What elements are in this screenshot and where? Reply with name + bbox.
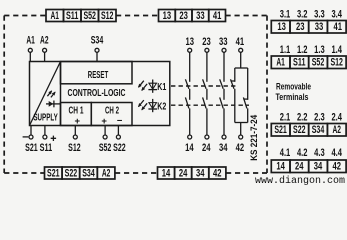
svg-text:RESET: RESET: [88, 70, 109, 81]
svg-text:A2: A2: [102, 167, 111, 179]
right panel labels 1.1-1.4: [280, 44, 342, 56]
svg-text:4.3: 4.3: [314, 147, 325, 159]
svg-text:24: 24: [295, 161, 304, 173]
terminal A2: [40, 35, 49, 62]
terminal S34: [91, 35, 104, 62]
svg-text:S22: S22: [113, 142, 126, 154]
svg-text:Removable: Removable: [276, 81, 311, 92]
contact path 13-14: [185, 36, 194, 154]
terminal S12: [68, 126, 81, 155]
channel CH1 box: [61, 103, 92, 127]
svg-text:4.2: 4.2: [297, 147, 308, 159]
svg-text:2.3: 2.3: [314, 111, 325, 123]
right panel labels 2.1-2.4: [280, 111, 342, 123]
svg-text:33: 33: [219, 36, 228, 48]
svg-text:3.2: 3.2: [297, 8, 308, 20]
module boundary dashed frame: [4, 16, 267, 174]
svg-text:SUPPLY: SUPPLY: [33, 113, 58, 124]
svg-text:2.2: 2.2: [297, 111, 308, 123]
svg-text:1.1: 1.1: [280, 44, 291, 56]
svg-text:24: 24: [202, 142, 211, 154]
terminal S21 with minus polarity: [23, 126, 38, 155]
svg-text:42: 42: [332, 161, 341, 173]
watermark: [255, 175, 345, 187]
svg-text:41: 41: [236, 36, 245, 48]
svg-text:S22: S22: [65, 167, 78, 179]
terminal strip X3 13 23 33 41: [159, 10, 226, 22]
svg-text:41: 41: [333, 21, 342, 33]
contact path 23-24: [202, 36, 211, 154]
right panel labels 3.1-3.4: [280, 8, 342, 20]
terminal strip X1 A1 S11 S52 S12: [46, 10, 116, 22]
svg-text:33: 33: [196, 10, 205, 22]
svg-text:S21: S21: [274, 124, 287, 136]
svg-text:A1: A1: [50, 10, 59, 22]
svg-text:S11: S11: [66, 10, 79, 22]
svg-text:S52: S52: [312, 57, 325, 69]
svg-text:+: +: [101, 116, 107, 127]
svg-text:24: 24: [179, 167, 188, 179]
svg-text:14: 14: [185, 142, 194, 154]
svg-text:S12: S12: [330, 57, 343, 69]
relay K2 LED indicator: [139, 99, 167, 113]
LED supply indicator: [46, 91, 61, 107]
svg-text:42: 42: [213, 167, 222, 179]
svg-text:CONTROL-LOGIC: CONTROL-LOGIC: [68, 87, 126, 99]
terminal S52: [99, 126, 112, 155]
svg-text:14: 14: [162, 167, 171, 179]
relay K1 LED indicator: [139, 80, 167, 94]
svg-text:K1: K1: [157, 82, 166, 93]
svg-text:14: 14: [276, 161, 285, 173]
svg-text:KS 221-7-24: KS 221-7-24: [249, 115, 259, 161]
right strip 13 23 33 41: [271, 21, 346, 34]
svg-text:S34: S34: [82, 167, 95, 179]
svg-text:13: 13: [277, 21, 286, 33]
svg-text:4.1: 4.1: [280, 147, 291, 159]
svg-text:34: 34: [196, 167, 205, 179]
contact path 41-42 NC parallel loop: [231, 36, 248, 154]
svg-text:+: +: [75, 116, 81, 127]
RESET box: [61, 62, 133, 84]
svg-text:3.1: 3.1: [280, 8, 291, 20]
svg-text:S34: S34: [91, 35, 104, 47]
svg-text:S21: S21: [25, 142, 38, 154]
svg-text:Terminals: Terminals: [276, 92, 309, 103]
svg-text:S52: S52: [99, 142, 112, 154]
svg-text:S12: S12: [68, 142, 81, 154]
svg-text:2.1: 2.1: [280, 111, 291, 123]
svg-text:1.3: 1.3: [314, 44, 325, 56]
supply section divider: [60, 62, 62, 126]
terminal strip X4 14 24 34 42: [158, 167, 226, 179]
contact path 33-34: [219, 36, 228, 154]
svg-text:S52: S52: [83, 10, 96, 22]
svg-text:34: 34: [314, 161, 323, 173]
svg-text:23: 23: [296, 21, 305, 33]
svg-text:−: −: [117, 115, 123, 126]
type label KS 221-7-24: [249, 115, 259, 161]
svg-text:www.diangon.com: www.diangon.com: [255, 175, 345, 187]
svg-text:A2: A2: [40, 35, 49, 47]
terminal strip X2 S21 S22 S34 A2: [45, 167, 115, 179]
right strip A1 S11 S52 S12: [271, 56, 346, 69]
relay K1 actuator dashed link: [171, 85, 237, 87]
right strip S21 S22 S34 A2: [271, 124, 346, 137]
right panel labels 4.1-4.4: [280, 147, 342, 159]
svg-text:34: 34: [219, 142, 228, 154]
terminal S11 with plus polarity: [40, 126, 56, 155]
channel CH2 box: [91, 103, 132, 127]
svg-text:13: 13: [185, 36, 194, 48]
svg-text:1.2: 1.2: [297, 44, 308, 56]
svg-text:A1: A1: [276, 57, 285, 69]
svg-text:23: 23: [202, 36, 211, 48]
supply transformer diagonal: [30, 62, 61, 126]
svg-text:A2: A2: [332, 124, 341, 136]
main block outline: [30, 62, 170, 126]
svg-text:CH 1: CH 1: [69, 105, 84, 116]
svg-text:S34: S34: [312, 124, 325, 136]
svg-text:3.3: 3.3: [314, 8, 325, 20]
terminal A1: [26, 35, 35, 62]
removable terminals note: [276, 81, 312, 103]
svg-text:K2: K2: [157, 101, 166, 112]
right strip 14 24 34 42: [271, 160, 346, 173]
relay K2 actuator dashed link: [171, 104, 249, 106]
svg-text:A1: A1: [26, 35, 35, 47]
svg-text:S11: S11: [293, 57, 306, 69]
svg-text:23: 23: [179, 10, 188, 22]
svg-text:13: 13: [163, 10, 172, 22]
svg-text:33: 33: [315, 21, 324, 33]
svg-text:2.4: 2.4: [331, 111, 342, 123]
svg-text:3.4: 3.4: [331, 8, 342, 20]
svg-text:4.4: 4.4: [331, 147, 342, 159]
svg-text:42: 42: [236, 142, 245, 154]
svg-text:S12: S12: [101, 10, 114, 22]
svg-text:S22: S22: [293, 124, 306, 136]
svg-text:1.4: 1.4: [331, 44, 342, 56]
terminal S22: [113, 126, 126, 155]
svg-text:41: 41: [213, 10, 222, 22]
svg-text:S11: S11: [40, 142, 53, 154]
CONTROL-LOGIC label: [68, 87, 126, 99]
SUPPLY label: [33, 113, 58, 124]
svg-text:S21: S21: [47, 167, 60, 179]
